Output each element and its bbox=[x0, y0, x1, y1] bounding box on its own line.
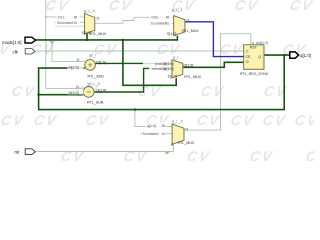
mux g_i bbox=[172, 60, 183, 78]
svg-text:CV: CV bbox=[185, 148, 212, 161]
svg-text:CV: CV bbox=[0, 112, 27, 128]
svg-text:g_i__1: g_i__1 bbox=[172, 8, 183, 12]
svg-text:clk: clk bbox=[13, 49, 19, 54]
svg-text:g0_i__0: g0_i__0 bbox=[88, 82, 101, 86]
svg-text:RST: RST bbox=[250, 46, 258, 50]
wire mux4 S down to load wire bbox=[173, 144, 175, 152]
svg-text:I1[1:0]: I1[1:0] bbox=[164, 67, 174, 71]
wire mux4 I1 stub bbox=[140, 132, 172, 134]
svg-text:g_i__2: g_i__2 bbox=[172, 119, 183, 123]
svg-text:1'b0,: 1'b0, bbox=[151, 15, 159, 19]
svg-text:CV: CV bbox=[199, 83, 226, 99]
svg-text:g_i: g_i bbox=[173, 56, 178, 60]
output port q bbox=[290, 52, 299, 58]
svg-text:I1: I1 bbox=[77, 58, 80, 62]
svg-text:CV: CV bbox=[44, 0, 71, 13]
arrow tap below mode bus bbox=[49, 41, 54, 44]
svg-text:I1: I1 bbox=[74, 21, 77, 25]
wire mux1 output to mux2 I0 bbox=[95, 17, 174, 23]
svg-text:I1: I1 bbox=[76, 85, 79, 89]
svg-text:CV: CV bbox=[84, 112, 111, 128]
svg-text:CV: CV bbox=[92, 41, 119, 57]
wire mode bus to mux2 S bbox=[36, 36, 178, 40]
wire q feedback to mux4 I0 bbox=[135, 110, 172, 127]
mux g_i__1 bbox=[174, 16, 185, 36]
svg-text:RTL_MUX: RTL_MUX bbox=[90, 32, 107, 36]
svg-text:RTL_REG_SYNC: RTL_REG_SYNC bbox=[240, 72, 269, 76]
svg-text:I0[1:0]: I0[1:0] bbox=[164, 62, 174, 66]
svg-text:CV: CV bbox=[229, 112, 256, 128]
wire register Q to output port bbox=[264, 54, 290, 56]
svg-text:O[1:0]: O[1:0] bbox=[96, 60, 106, 64]
svg-text:g_i__0: g_i__0 bbox=[84, 9, 95, 13]
svg-text:CV: CV bbox=[293, 112, 314, 128]
register RTL_REG_SYNC bbox=[244, 45, 264, 70]
svg-text:D: D bbox=[246, 60, 249, 64]
svg-text:CV: CV bbox=[218, 41, 245, 57]
adder RTL_ADD bbox=[85, 60, 96, 71]
svg-text:I0: I0 bbox=[166, 15, 169, 19]
svg-text:S[1:0]: S[1:0] bbox=[168, 74, 177, 78]
wire bottom port to mux4 S bbox=[37, 151, 174, 153]
svg-text:RTL_MUX: RTL_MUX bbox=[182, 29, 199, 33]
svg-text:CE: CE bbox=[246, 55, 252, 59]
svg-text:CV: CV bbox=[261, 112, 288, 128]
svg-text:CV: CV bbox=[233, 0, 260, 13]
svg-text:CV: CV bbox=[288, 0, 314, 13]
wire ADD output to mux3 I0 bbox=[95, 62, 172, 64]
svg-text:S[1:0]: S[1:0] bbox=[167, 32, 176, 36]
svg-text:q[1:0]: q[1:0] bbox=[147, 124, 156, 128]
svg-text:CV: CV bbox=[59, 148, 86, 161]
svg-text:RTL_SUB: RTL_SUB bbox=[87, 101, 104, 105]
wire q feedback to SUB I0 bbox=[39, 94, 84, 96]
wire mux2 I1 stub bbox=[157, 22, 174, 24]
mux g_i__0 bbox=[85, 14, 95, 34]
svg-text:CV: CV bbox=[32, 112, 59, 128]
svg-text:O[1:0]: O[1:0] bbox=[96, 89, 106, 93]
svg-text:O: O bbox=[185, 127, 188, 131]
svg-text:O[1:0]: O[1:0] bbox=[184, 63, 194, 67]
input port load bbox=[25, 149, 35, 155]
wire clk to register C bbox=[35, 50, 243, 52]
wire mux1 I1 stub bbox=[55, 21, 85, 23]
wire q feedback loop bbox=[39, 55, 285, 110]
svg-text:I1: I1 bbox=[162, 132, 165, 136]
svg-text:Sconstant: Sconstant bbox=[143, 132, 159, 136]
wire mux1 I2 stub bbox=[55, 25, 85, 27]
svg-text:RTL_MUX: RTL_MUX bbox=[184, 75, 201, 79]
svg-text:I0[1:0]: I0[1:0] bbox=[69, 65, 79, 69]
svg-text:CV: CV bbox=[262, 83, 289, 99]
arrow on load wire bbox=[164, 152, 169, 155]
svg-text:CV: CV bbox=[10, 83, 37, 99]
svg-text:O: O bbox=[187, 19, 190, 23]
svg-text:Sconstant: Sconstant bbox=[57, 21, 73, 25]
wire mux4 output to register RST bbox=[184, 34, 251, 130]
svg-text:CV: CV bbox=[155, 41, 182, 57]
label background patches on wires bbox=[56, 15, 172, 136]
svg-text:RTL_ADD: RTL_ADD bbox=[88, 74, 105, 78]
watermark tile pattern bbox=[0, 0, 320, 164]
svg-text:O: O bbox=[97, 17, 100, 21]
svg-text:q[1:0]: q[1:0] bbox=[300, 53, 311, 58]
svg-text:1'b1,: 1'b1, bbox=[58, 15, 66, 19]
wire mux1 S bbox=[86, 33, 88, 40]
svg-text:CV: CV bbox=[195, 112, 222, 128]
svg-text:RTL_MUX: RTL_MUX bbox=[178, 141, 195, 145]
wire mux2 output to register CE (blue) bbox=[185, 22, 244, 57]
wire SUB output to mux3 I1 bbox=[94, 68, 172, 92]
svg-text:g0_i: g0_i bbox=[89, 53, 96, 57]
svg-text:Sconstant: Sconstant bbox=[151, 22, 167, 26]
svg-text:C: C bbox=[246, 49, 249, 53]
svg-text:q_reg[1:0]: q_reg[1:0] bbox=[252, 41, 268, 45]
svg-text:CV: CV bbox=[107, 0, 134, 13]
mux g_i__2 bbox=[172, 124, 184, 144]
wire mux3 output to register D bbox=[183, 62, 244, 67]
svg-text:Q: Q bbox=[258, 55, 261, 59]
svg-text:mode[1:0]: mode[1:0] bbox=[2, 40, 22, 45]
subtractor RTL_SUB bbox=[83, 87, 94, 98]
input port clk bbox=[25, 49, 35, 54]
wire net from top edge to mux1 I0 and SUB I1 bbox=[45, 0, 47, 89]
svg-text:I0: I0 bbox=[162, 124, 165, 128]
svg-text:I1: I1 bbox=[166, 22, 169, 26]
input port mode[1:0] bbox=[25, 37, 36, 43]
wire mode tap down to ADD I1 bbox=[52, 44, 85, 62]
svg-text:I0[1:0]: I0[1:0] bbox=[69, 91, 79, 95]
svg-text:CV: CV bbox=[122, 148, 149, 161]
svg-text:I0: I0 bbox=[74, 15, 77, 19]
wire mode tap to mux3 S bbox=[123, 40, 176, 85]
svg-text:CV: CV bbox=[248, 148, 275, 161]
